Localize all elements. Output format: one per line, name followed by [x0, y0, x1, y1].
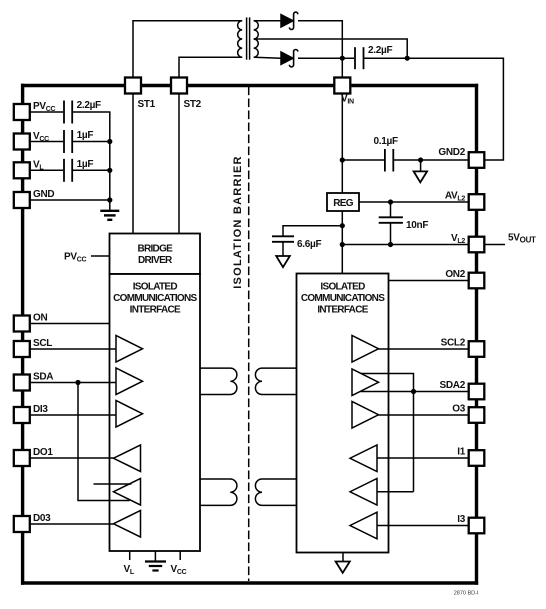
- transformer T1 primary winding: [238, 21, 243, 57]
- wire GND pin to ground: [30, 199, 110, 201]
- pin ON: [14, 316, 30, 332]
- buffer SDA receiver (left): [114, 479, 141, 506]
- wire ground stub under U1: [154, 551, 156, 561]
- wire ST1 to transformer primary top: [133, 21, 242, 79]
- svg-text:ISOLATED: ISOLATED: [133, 282, 178, 293]
- wire C2 to GND2 pin: [393, 159, 469, 161]
- buffer SCL driver (left): [116, 336, 143, 363]
- buffer DI3 driver (left): [116, 401, 143, 428]
- isolation barrier dashed line: [248, 87, 250, 582]
- wire SDA loop to mid receiver: [78, 383, 130, 501]
- pin GND: [14, 192, 30, 208]
- transformer T1 secondary winding: [254, 21, 259, 57]
- buffer I1 receiver (right): [350, 445, 377, 472]
- coupling winding upper right: [255, 368, 296, 394]
- svg-text:ST2: ST2: [184, 99, 202, 110]
- buffer DO1 receiver (left): [114, 445, 141, 472]
- svg-text:GND: GND: [33, 189, 54, 200]
- pin DI3: [14, 407, 30, 423]
- isolated communications interface block U1b (left): [110, 274, 201, 551]
- ground earth symbol (supply caps): [109, 200, 111, 211]
- pin VL2: [469, 237, 485, 253]
- transformer T1 core: [246, 17, 248, 59]
- coupling winding lower right: [255, 479, 296, 505]
- svg-text:SCL: SCL: [33, 338, 52, 349]
- wire SCL2 buffer to pin: [379, 348, 470, 350]
- wire bottom rail (heavy): [21, 581, 478, 584]
- wire C4 to ground bus: [72, 141, 110, 143]
- wire DI3 pin to buffer: [30, 414, 116, 416]
- svg-text:GND2: GND2: [438, 147, 465, 158]
- svg-text:ST1: ST1: [138, 99, 156, 110]
- svg-text:I1: I1: [457, 447, 465, 458]
- pin ST1: [125, 78, 141, 94]
- wire ST1 pin down to bridge driver: [132, 93, 134, 234]
- svg-text:ON: ON: [33, 313, 47, 324]
- pin PVCC: [14, 104, 30, 120]
- junction SDA2 loop: [411, 389, 416, 394]
- junction VIN / C2: [340, 157, 345, 162]
- wire ON2 pin to U2: [389, 280, 470, 282]
- svg-text:REG: REG: [333, 198, 353, 209]
- svg-text:SDA: SDA: [33, 372, 53, 383]
- coupling winding upper left: [200, 368, 237, 394]
- pin ST2: [171, 78, 187, 94]
- svg-text:COMMUNICATIONS: COMMUNICATIONS: [113, 293, 197, 304]
- wire secondary top to diode D1: [254, 20, 281, 22]
- capacitor C7 6.6uF: [272, 235, 294, 237]
- wire D2 cathode to VIN node: [298, 57, 354, 59]
- junction VL2 / C7: [340, 223, 345, 228]
- pin VIN: [334, 78, 350, 94]
- wire REG to AVL2 pin: [359, 201, 469, 203]
- buffer SCL2 driver (right): [352, 336, 379, 363]
- wire SDA2 buffer to pin: [361, 391, 470, 393]
- wire SCL pin to buffer: [30, 348, 116, 350]
- buffer D03 receiver (left): [114, 511, 141, 538]
- svg-text:I3: I3: [457, 514, 465, 525]
- junction VIN rectified node: [340, 56, 345, 61]
- ground arrow under U2: [342, 553, 344, 563]
- capacitor C2 0.1uF: [384, 149, 386, 172]
- wire ST2 to transformer primary bottom: [179, 57, 242, 78]
- wire VL2 pin to 5VOUT: [485, 244, 505, 246]
- isolated communications interface block U2 (right): [297, 274, 389, 553]
- pin VCC: [14, 134, 30, 150]
- svg-text:BRIDGE: BRIDGE: [137, 244, 173, 255]
- pin O3: [469, 407, 485, 423]
- wire secondary center tap to GND2 node: [254, 39, 408, 58]
- wire VIN node to VIN pin: [341, 58, 343, 78]
- wire SDA2 upper loop to receiver: [361, 374, 414, 492]
- svg-text:0.1µF: 0.1µF: [374, 136, 398, 147]
- wire REG down to U2: [341, 211, 343, 274]
- buffer O3 driver (right): [352, 402, 379, 429]
- svg-text:DI3: DI3: [33, 404, 48, 415]
- pin SDA2: [469, 384, 485, 400]
- junction GND row: [107, 197, 112, 202]
- junction C5 ground: [107, 168, 112, 173]
- wire right bus (heavy): [475, 84, 478, 585]
- pin SDA: [14, 375, 30, 391]
- pin D03: [14, 516, 30, 532]
- buffer SDA driver (left): [116, 368, 143, 395]
- ground GND2 arrow: [420, 160, 422, 171]
- wire to C7: [283, 226, 342, 236]
- svg-text:6.6µF: 6.6µF: [297, 239, 321, 250]
- wire C1 to GND2 pin: [364, 58, 504, 160]
- schottky diode D1: [281, 12, 298, 29]
- svg-text:ISOLATED: ISOLATED: [320, 282, 365, 293]
- svg-text:ON2: ON2: [445, 269, 465, 280]
- pin ON2: [469, 273, 485, 289]
- junction C2 ground: [418, 157, 423, 162]
- wire VCC stub under U1: [179, 551, 181, 560]
- svg-text:ISOLATION BARRIER: ISOLATION BARRIER: [232, 155, 244, 289]
- wire PVCC stub into bridge driver: [91, 255, 110, 257]
- junction VL2 / C6: [388, 242, 393, 247]
- wire D1 cathode down to VIN node: [298, 21, 342, 58]
- svg-text:2.2µF: 2.2µF: [77, 100, 101, 111]
- buffer SDA2 driver (right): [352, 369, 379, 396]
- wire ST2 pin down to bridge driver: [178, 93, 180, 234]
- svg-text:2.2µF: 2.2µF: [368, 45, 392, 56]
- coupling winding lower left: [200, 479, 237, 505]
- wire VL stub under U1: [129, 551, 131, 560]
- wire I3 pin to buffer: [377, 525, 469, 527]
- wire I1 pin to buffer: [377, 457, 469, 459]
- pin SCL: [14, 341, 30, 357]
- svg-text:10nF: 10nF: [406, 220, 428, 231]
- svg-text:D03: D03: [33, 513, 51, 524]
- junction SDA loop: [75, 380, 80, 385]
- pin SCL2: [469, 341, 485, 357]
- wire VIN to C2: [342, 159, 384, 161]
- wire C3 to ground bus: [72, 112, 110, 200]
- svg-text:1µF: 1µF: [77, 130, 94, 141]
- wire SDA pin to buffer: [30, 382, 116, 384]
- buffer I3 receiver (right): [350, 512, 377, 539]
- wire VCC pin to C4: [30, 141, 63, 143]
- wire ON pin to U1: [30, 323, 110, 325]
- pin VL: [14, 162, 30, 178]
- wire stub on mid receiver: [94, 483, 132, 485]
- wire C5 to ground bus: [72, 169, 110, 171]
- bridge driver block U1a: [110, 234, 201, 275]
- junction center tap / C1: [405, 56, 410, 61]
- wire D03 pin to buffer: [30, 523, 114, 525]
- wire VL pin to C5: [30, 169, 63, 171]
- wire top supply rail (heavy): [21, 84, 478, 87]
- regulator REG box: [327, 193, 359, 211]
- buffer SDA2 receiver (right): [350, 479, 377, 506]
- wire SDA2 receiver input: [377, 491, 414, 493]
- wire left bus (heavy): [21, 84, 24, 585]
- pin DO1: [14, 450, 30, 466]
- svg-text:1µF: 1µF: [77, 159, 94, 170]
- pin AVL2: [469, 194, 485, 210]
- capacitor C4 1uF: [63, 130, 65, 153]
- pin I3: [469, 518, 485, 534]
- svg-text:COMMUNICATIONS: COMMUNICATIONS: [301, 293, 385, 304]
- junction C4 ground: [107, 139, 112, 144]
- capacitor C1 2.2uF (VIN bypass): [354, 47, 356, 69]
- wire DO1 pin to buffer: [30, 457, 114, 459]
- pin I1: [469, 450, 485, 466]
- wire PVCC pin to C3: [30, 111, 63, 113]
- ground earth symbol under U1: [145, 560, 166, 562]
- svg-text:O3: O3: [452, 404, 465, 415]
- wire VIN pin down to REG: [341, 93, 343, 193]
- schottky diode D2: [281, 50, 298, 67]
- junction AVL2 / C6: [388, 199, 393, 204]
- svg-text:INTERFACE: INTERFACE: [130, 305, 181, 316]
- svg-text:INTERFACE: INTERFACE: [317, 305, 368, 316]
- wire secondary bottom to diode D2: [254, 57, 281, 58]
- ground arrow below C7: [282, 242, 284, 256]
- svg-text:DRIVER: DRIVER: [138, 255, 173, 266]
- capacitor C3 2.2uF: [63, 101, 65, 124]
- wire VL2 row: [342, 244, 469, 246]
- svg-text:SDA2: SDA2: [440, 380, 466, 391]
- wire O3 buffer to pin: [379, 414, 470, 416]
- svg-text:DO1: DO1: [33, 447, 53, 458]
- svg-text:2870 BD-I: 2870 BD-I: [454, 591, 479, 597]
- capacitor C5 1uF: [63, 159, 65, 182]
- svg-text:SCL2: SCL2: [441, 338, 466, 349]
- pin GND2: [469, 152, 485, 168]
- junction VL2 row: [340, 242, 345, 247]
- capacitor C6 10nF: [390, 202, 392, 217]
